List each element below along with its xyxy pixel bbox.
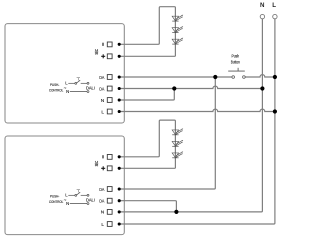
LED D2 [172, 26, 183, 33]
LED D1 [172, 15, 183, 22]
svg-text:PUSH-: PUSH- [50, 193, 60, 198]
svg-text:N: N [260, 2, 265, 9]
wire: push button S1 to L line (hop over N line) [245, 75, 275, 77]
wire: U1 L terminal to L line (hops over DA1 link and N line) [119, 109, 275, 111]
svg-text:PUSH-: PUSH- [50, 82, 60, 87]
svg-text:DALI: DALI [86, 197, 95, 202]
LED D5 [172, 140, 183, 147]
junction: U1 L wire on L line [273, 109, 277, 113]
wire: L line (mains L down to U2 L terminal) [119, 19, 275, 224]
svg-text:N: N [101, 98, 105, 104]
svg-text:Push: Push [232, 54, 240, 59]
U2 switch actuator [77, 190, 80, 193]
U2 terminal dots [118, 155, 121, 225]
U1 internal switch [68, 80, 89, 92]
junction: DA1 wire to inter-driver link [213, 75, 217, 79]
U1 terminal L square [107, 109, 112, 114]
U2 internal switch [68, 192, 89, 204]
svg-text:DA: DA [99, 187, 105, 193]
U2 terminal N square [107, 210, 112, 215]
LED D3 [172, 38, 183, 45]
wire: U1 N terminal stub joining DA2 wire [119, 89, 174, 101]
svg-text:CONTROL: CONTROL [49, 87, 64, 92]
U2 terminal L square [107, 222, 112, 227]
U1 push-control block text [49, 81, 69, 94]
junction: DA2 wire on N line [260, 86, 264, 90]
junction: U1 N stub on DA2 wire [172, 86, 176, 90]
LED driver U2 (bottom box) [5, 136, 124, 235]
svg-text:N: N [66, 201, 69, 206]
wire: N line (mains N down to U2 N terminal) [119, 19, 262, 212]
wire: DA1 link U1 to U2 [119, 77, 215, 189]
U2 terminal '+' square [107, 166, 112, 171]
U2 terminal DA1 square [107, 187, 112, 192]
svg-text:DALI: DALI [86, 85, 95, 90]
U1 switch actuator [77, 78, 80, 81]
svg-text:DA: DA [99, 199, 105, 205]
U1 terminal DA1 square [107, 75, 112, 80]
U2 terminal '-' square [107, 155, 112, 160]
U1 terminal '-' label [102, 43, 104, 46]
U2 push-control block text [49, 193, 69, 206]
svg-text:Button: Button [231, 59, 240, 64]
svg-text:DA: DA [99, 75, 105, 81]
wire: U2 DA2 terminal joining N wire [119, 201, 176, 212]
junction: U2 DA2 on N wire [174, 210, 178, 214]
svg-text:SEC: SEC [94, 49, 100, 55]
push button S1 label [231, 54, 240, 65]
U1 terminal '-' square [107, 42, 112, 47]
wire: U1 DA2 terminal to N line (hop over DA1 link) [119, 86, 262, 88]
U1 terminal '+' label [101, 54, 105, 58]
U1 terminal DA2 square [107, 86, 112, 91]
U1 terminal N square [107, 98, 112, 103]
U2 terminal '+' label [101, 166, 105, 170]
U2 terminal DA2 square [107, 198, 112, 203]
svg-text:N: N [66, 89, 69, 94]
svg-text:~: ~ [64, 198, 67, 203]
svg-text:CONTROL: CONTROL [49, 199, 64, 204]
wire: U2 '+' terminal to LED string 2 cathode [119, 167, 175, 169]
svg-text:L: L [272, 2, 276, 9]
LED D4 [172, 128, 183, 135]
junction: push button wire on L line [273, 75, 277, 79]
U1 terminal dots [118, 43, 121, 113]
push button S1 [228, 68, 245, 78]
svg-text:L: L [101, 109, 104, 115]
svg-text:SEC: SEC [94, 161, 100, 167]
svg-text:~: ~ [64, 86, 67, 91]
wire: U2 '-' terminal to LED string 2 anode rail [119, 120, 175, 168]
LED D6 [172, 151, 183, 158]
wire: U1 '-' terminal to LED string 1 anode rail [119, 7, 175, 57]
svg-text:N: N [101, 210, 105, 216]
wire: U1 DA1 terminal to push button S1 [119, 76, 232, 78]
LED driver U1 (top box) [5, 24, 124, 123]
svg-text:DA: DA [99, 86, 105, 92]
svg-text:L: L [101, 222, 104, 228]
wire: U1 '+' terminal to LED string 1 cathode [119, 55, 175, 57]
U2 terminal '-' label [102, 155, 104, 158]
U1 terminal '+' square [107, 54, 112, 59]
